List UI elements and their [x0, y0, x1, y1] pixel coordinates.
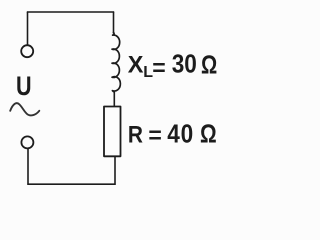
svg-text:Ω: Ω: [200, 120, 217, 149]
wire top horizontal: [28, 11, 114, 13]
wire bottom horizontal: [28, 183, 115, 185]
svg-text:=: =: [148, 122, 161, 148]
svg-text:Ω: Ω: [201, 50, 217, 79]
label XL = 30 Ohm: [128, 50, 218, 81]
terminal top (circle): [21, 45, 33, 57]
wire inductor to resistor: [113, 92, 115, 107]
inductor L (coil, 4 humps): [112, 33, 120, 93]
terminal bottom (circle): [21, 136, 33, 148]
wire right upper vertical (to inductor): [113, 12, 115, 33]
svg-text:X: X: [128, 51, 144, 78]
svg-text:U: U: [16, 72, 32, 102]
svg-text:=: =: [152, 55, 165, 81]
svg-text:30: 30: [172, 50, 197, 79]
svg-text:R: R: [128, 121, 143, 148]
AC source sine symbol: [10, 103, 39, 115]
wire resistor bottom vertical: [114, 156, 116, 184]
svg-text:40: 40: [167, 120, 194, 149]
wire left lower vertical (to bottom terminal): [27, 149, 29, 184]
wire left upper vertical (to top terminal): [27, 12, 29, 45]
label R = 40 Ohm: [128, 120, 217, 149]
resistor R (box): [104, 107, 121, 157]
